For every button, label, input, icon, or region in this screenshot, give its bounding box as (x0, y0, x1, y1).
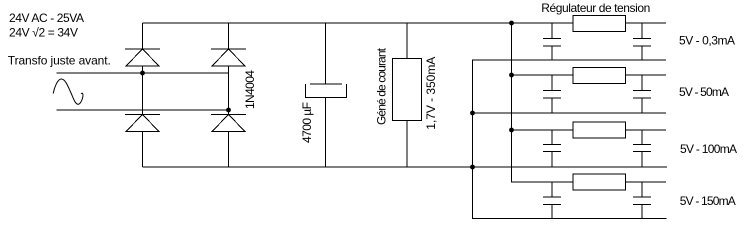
svg-text:5V - 100mA: 5V - 100mA (680, 142, 737, 156)
svg-text:5V - 50mA: 5V - 50mA (679, 85, 729, 99)
svg-text:4700 µF: 4700 µF (300, 102, 314, 143)
svg-text:1N4004: 1N4004 (243, 70, 257, 109)
svg-text:Géné de courant: Géné de courant (375, 47, 389, 125)
svg-text:Régulateur de tension: Régulateur de tension (541, 1, 650, 15)
svg-text:5V - 0,3mA: 5V - 0,3mA (679, 34, 735, 48)
svg-text:Transfo juste avant.: Transfo juste avant. (8, 54, 111, 68)
svg-text:24V √2 = 34V: 24V √2 = 34V (9, 26, 78, 40)
svg-text:1,7V - 350mA: 1,7V - 350mA (424, 57, 438, 130)
svg-text:5V - 150mA: 5V - 150mA (680, 194, 736, 208)
svg-text:24V AC - 25VA: 24V AC - 25VA (9, 11, 84, 25)
